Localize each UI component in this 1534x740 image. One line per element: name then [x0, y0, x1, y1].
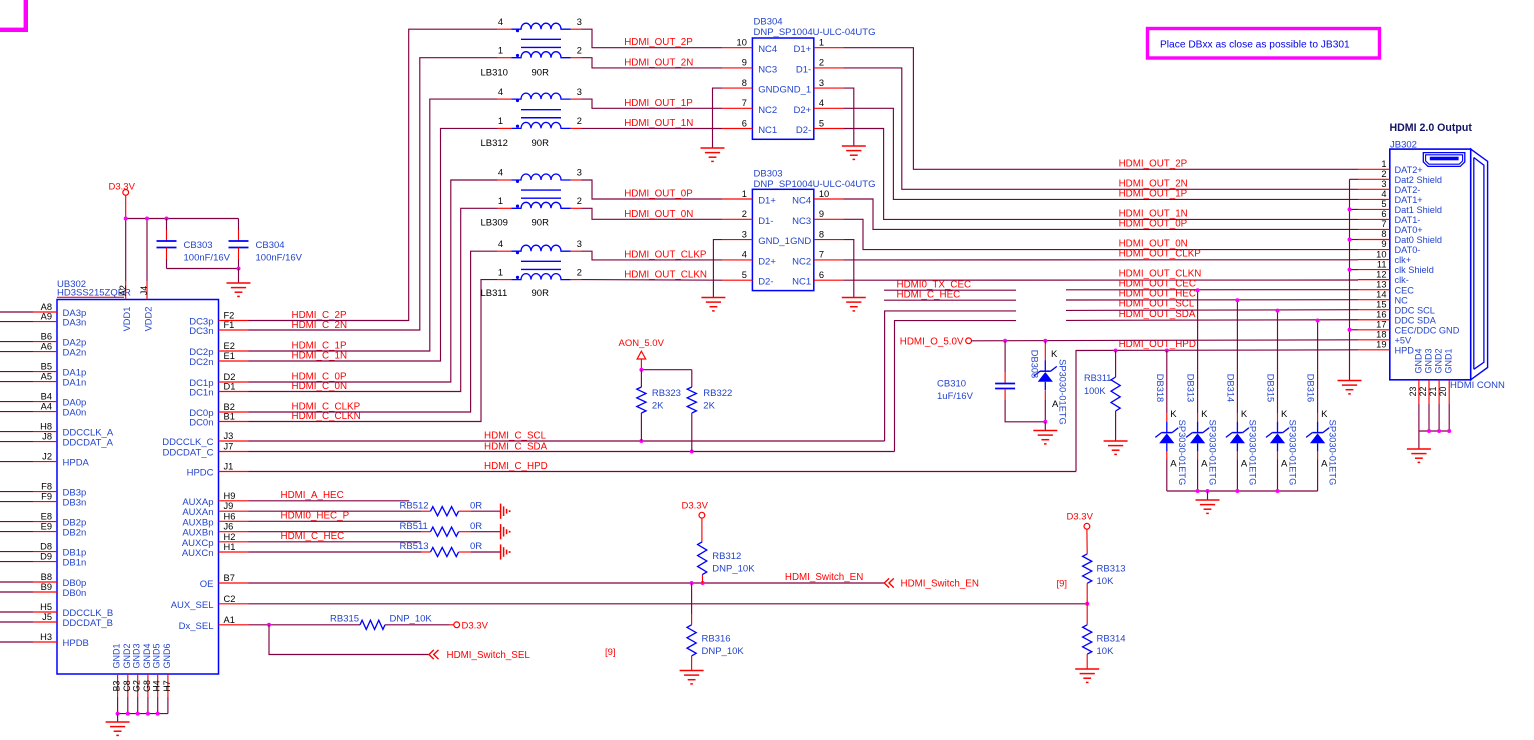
- svg-text:100K: 100K: [1084, 386, 1106, 396]
- UB302 pin F8 DB3p wire: [0, 491, 33, 493]
- wire HDMI_OUT_CLKN (DB303 pin6 to JB302 pin12): [844, 279, 1358, 281]
- UB302 pin H3 HPDB wire: [0, 641, 33, 643]
- svg-text:8: 8: [742, 78, 747, 88]
- UB302 pin E1 DC2n stub: [219, 360, 249, 362]
- svg-text:2: 2: [1381, 169, 1386, 179]
- off-page arrow HDMI_Switch_SEL: [429, 650, 434, 659]
- svg-text:HDMI_OUT_1N: HDMI_OUT_1N: [624, 118, 693, 129]
- UB302 pin B7 OE stub: [219, 582, 249, 584]
- UB302 pin J7 DDCDAT_C stub: [219, 451, 249, 453]
- svg-text:HDMI_C_SCL: HDMI_C_SCL: [484, 431, 547, 442]
- svg-text:0R: 0R: [470, 521, 482, 532]
- svg-text:DAT0+: DAT0+: [1395, 225, 1423, 235]
- UB302 pin H2 AUXCp stub: [219, 541, 249, 543]
- svg-text:DNP_SP1004U-ULC-04UTG: DNP_SP1004U-ULC-04UTG: [754, 179, 876, 190]
- svg-text:HDMI_C_HEC: HDMI_C_HEC: [281, 531, 345, 542]
- ground stub (RB511): [500, 524, 502, 539]
- svg-text:23: 23: [1408, 387, 1418, 397]
- UB302 pin D9 DB1n wire: [0, 561, 33, 563]
- wire Dx_SEL (A1): [249, 624, 361, 626]
- svg-text:DB314: DB314: [1225, 374, 1235, 402]
- wire HDMI_OUT_CLKP (DB303 pin7 to JB302 pin10): [844, 259, 1358, 261]
- UB302 pin J1 HPDC stub: [219, 471, 249, 473]
- JB302 pin 2 Dat2 Shield: [1358, 178, 1390, 180]
- svg-text:D9: D9: [40, 552, 52, 562]
- wire AUXAp (H9): [249, 500, 410, 502]
- svg-text:12: 12: [1376, 269, 1386, 279]
- svg-text:GND4: GND4: [142, 643, 152, 668]
- svg-text:6: 6: [742, 118, 747, 128]
- UB302 pin A5 DA1n wire: [0, 381, 33, 383]
- svg-text:J5: J5: [42, 612, 52, 622]
- svg-text:6: 6: [819, 270, 824, 280]
- wire HDMI_OUT_2N (DB304 pin2 to JB302 pin3): [844, 68, 1358, 189]
- wire UB302 output riser to choke (1): [249, 58, 498, 330]
- UB302 pin E2 DC2p stub: [219, 350, 249, 352]
- svg-text:DC2n: DC2n: [189, 357, 213, 368]
- UB302 pin H6 AUXBp stub: [219, 520, 249, 522]
- svg-text:D1+: D1+: [758, 196, 776, 207]
- svg-text:DB3n: DB3n: [63, 498, 87, 509]
- JB302 pin 4 DAT1+: [1358, 198, 1390, 200]
- wire DB303 pin8 GND: [844, 240, 854, 298]
- svg-text:13: 13: [1376, 279, 1386, 289]
- JB302 pin 9 DAT0-: [1358, 249, 1390, 251]
- svg-text:H3: H3: [40, 632, 52, 642]
- UB302 pin B4 DA0p wire: [0, 401, 33, 403]
- svg-text:HPDB: HPDB: [63, 638, 89, 649]
- svg-text:HPD: HPD: [1395, 345, 1415, 355]
- svg-text:HDMI_C_2N: HDMI_C_2N: [292, 320, 348, 331]
- JB302 pin 16 DDC SDA: [1358, 319, 1390, 321]
- svg-text:NC3: NC3: [792, 216, 811, 227]
- svg-text:DDCDAT_B: DDCDAT_B: [63, 618, 114, 629]
- svg-text:D1-: D1-: [758, 216, 773, 227]
- svg-text:F2: F2: [224, 311, 235, 321]
- TVS diode DB314 SP3030-01ETG: [1236, 300, 1238, 413]
- svg-text:4: 4: [498, 239, 503, 249]
- svg-text:HDMI_OUT_2P: HDMI_OUT_2P: [624, 37, 693, 48]
- svg-text:HDMI_OUT_0N: HDMI_OUT_0N: [624, 209, 693, 220]
- UB302 pin B5 DA1p wire: [0, 371, 33, 373]
- JB302 pin 15 DDC SCL: [1358, 309, 1390, 311]
- svg-text:DB316: DB316: [1306, 374, 1316, 402]
- UB302 pin A4 DA0n wire: [0, 411, 33, 413]
- svg-text:H4: H4: [152, 680, 162, 691]
- common-mode choke LB309 90R: [498, 179, 512, 181]
- svg-text:DA1n: DA1n: [63, 378, 87, 389]
- svg-text:K: K: [1241, 409, 1248, 420]
- svg-text:100nF/16V: 100nF/16V: [184, 253, 231, 264]
- svg-text:DDCCLK_C: DDCCLK_C: [162, 437, 213, 448]
- svg-text:3: 3: [742, 229, 747, 239]
- svg-text:90R: 90R: [532, 138, 550, 149]
- svg-text:8: 8: [819, 229, 824, 239]
- svg-text:GND2: GND2: [122, 643, 132, 668]
- svg-text:D2+: D2+: [758, 256, 776, 267]
- svg-text:NC4: NC4: [758, 44, 777, 55]
- svg-text:H1: H1: [224, 542, 236, 552]
- svg-text:3: 3: [1381, 179, 1386, 189]
- svg-text:K: K: [1051, 349, 1058, 360]
- svg-text:G8: G8: [142, 680, 152, 692]
- svg-text:H7: H7: [162, 680, 172, 691]
- resistor RB322 2K: [691, 370, 693, 387]
- svg-text:A1: A1: [224, 615, 235, 625]
- svg-text:DC0n: DC0n: [189, 418, 213, 429]
- svg-text:LB312: LB312: [481, 138, 508, 149]
- svg-text:D1: D1: [224, 382, 236, 392]
- svg-text:GND3: GND3: [1424, 348, 1434, 373]
- ground (RB316): [680, 670, 704, 672]
- UB302 pin D2 DC1p stub: [219, 381, 249, 383]
- svg-text:D3.3V: D3.3V: [109, 182, 136, 193]
- UB302 GND pins B3 C8 G2 G8 H4 H7: [117, 674, 119, 697]
- ground stub (RB512): [500, 504, 502, 519]
- wire LB309 pin2 to DB303 pin2 (HDMI_OUT_0N): [582, 208, 723, 219]
- JB302 pin 19 HPD: [1358, 349, 1390, 351]
- svg-text:90R: 90R: [532, 68, 550, 79]
- JB302 pin 6 DAT1-: [1358, 218, 1390, 220]
- ground (RB314): [1075, 668, 1099, 670]
- UB302 pin D1 DC1n stub: [219, 391, 249, 393]
- svg-text:[9]: [9]: [605, 647, 616, 658]
- svg-text:DAT1+: DAT1+: [1395, 195, 1423, 205]
- svg-text:18: 18: [1376, 330, 1386, 340]
- svg-text:90R: 90R: [532, 217, 550, 228]
- svg-text:4: 4: [819, 98, 824, 108]
- svg-text:A4: A4: [41, 402, 52, 412]
- svg-text:F9: F9: [41, 492, 52, 502]
- svg-text:6: 6: [1381, 209, 1386, 219]
- svg-text:0R: 0R: [470, 541, 482, 552]
- svg-text:D1+: D1+: [793, 44, 811, 55]
- svg-text:NC2: NC2: [792, 256, 811, 267]
- svg-text:B4: B4: [41, 392, 52, 402]
- svg-text:1: 1: [1381, 159, 1386, 169]
- wire LB312 pin3 to DB304 pin7 (HDMI_OUT_1P): [582, 99, 723, 108]
- svg-text:HDMI_OUT_0P: HDMI_OUT_0P: [1119, 218, 1188, 229]
- svg-text:J8: J8: [42, 432, 52, 442]
- JB302 pin 5 Dat1 Shield: [1358, 208, 1390, 210]
- UB302 pin A6 DA2n wire: [0, 351, 33, 353]
- svg-text:D1-: D1-: [796, 64, 811, 75]
- svg-text:GND1: GND1: [1444, 348, 1454, 373]
- svg-text:C8: C8: [122, 680, 132, 691]
- UB302 pin D8 DB1p wire: [0, 551, 33, 553]
- svg-text:Place DBxx as close as possibl: Place DBxx as close as possible to JB301: [1160, 40, 1350, 51]
- svg-text:GND: GND: [758, 85, 779, 96]
- svg-text:VDD2: VDD2: [143, 307, 153, 332]
- svg-text:HDMI_C_HEC: HDMI_C_HEC: [897, 290, 961, 301]
- svg-text:5: 5: [742, 270, 747, 280]
- svg-text:A: A: [1052, 399, 1059, 410]
- ground stub (RB513): [500, 544, 502, 559]
- ground (DB304 right): [842, 145, 866, 147]
- svg-text:9: 9: [742, 58, 747, 68]
- svg-text:A9: A9: [41, 312, 52, 322]
- ground (DB303 right): [842, 297, 866, 299]
- ground (JB302): [1407, 448, 1431, 450]
- svg-text:5: 5: [1381, 199, 1386, 209]
- svg-text:D2-: D2-: [796, 125, 811, 136]
- capacitor CB304 100nF/16V: [238, 219, 240, 231]
- svg-text:100nF/16V: 100nF/16V: [256, 253, 303, 264]
- svg-text:A6: A6: [41, 342, 52, 352]
- wire DDCDAT_C (J7): [249, 451, 895, 453]
- svg-text:VDD1: VDD1: [122, 307, 132, 332]
- svg-text:HPDC: HPDC: [187, 468, 214, 479]
- svg-text:HDMI_C_SDA: HDMI_C_SDA: [484, 441, 548, 452]
- svg-text:D3.3V: D3.3V: [1067, 512, 1094, 523]
- svg-text:17: 17: [1376, 319, 1386, 329]
- svg-text:D3.3V: D3.3V: [462, 620, 489, 631]
- wire UB302 output riser to choke (4): [249, 180, 498, 382]
- svg-text:HDMI 2.0 Output: HDMI 2.0 Output: [1390, 122, 1473, 134]
- wire UB302 output riser to choke (3): [249, 128, 498, 361]
- UB302 pin J3 DDCCLK_C stub: [219, 440, 249, 442]
- wire HDMI_Switch_SEL branch: [269, 625, 429, 655]
- wire HDMI_OUT_1P (DB304 pin4 to JB302 pin4): [844, 108, 1358, 199]
- svg-text:DNP_10K: DNP_10K: [390, 613, 433, 624]
- svg-text:F8: F8: [41, 482, 52, 492]
- svg-text:DB1n: DB1n: [63, 558, 87, 569]
- svg-text:D8: D8: [40, 542, 52, 552]
- svg-text:DB315: DB315: [1266, 374, 1276, 402]
- svg-text:D2-: D2-: [758, 277, 773, 288]
- svg-text:2: 2: [742, 209, 747, 219]
- svg-text:90R: 90R: [532, 288, 550, 299]
- svg-text:1: 1: [498, 196, 503, 206]
- svg-text:RB511: RB511: [400, 521, 428, 532]
- svg-text:E1: E1: [224, 351, 235, 361]
- JB302 pin 11 clk Shield: [1358, 269, 1390, 271]
- svg-text:A: A: [1170, 459, 1177, 470]
- wire HDMI_OUT_0N (DB303 pin9 to JB302 pin9): [844, 219, 1358, 249]
- svg-text:NC1: NC1: [758, 125, 777, 136]
- svg-text:RB314: RB314: [1097, 634, 1126, 645]
- svg-text:DAT1-: DAT1-: [1395, 215, 1421, 225]
- svg-text:GND3: GND3: [132, 643, 142, 668]
- resistor RB314 10K: [1086, 604, 1088, 625]
- svg-text:J1: J1: [224, 462, 234, 472]
- TVS diode DB308 SP3030-01ETG: [1044, 341, 1046, 344]
- wire HDMI_OUT_0P (DB303 pin10 to JB302 pin7): [844, 199, 1358, 229]
- svg-text:NC4: NC4: [792, 196, 811, 207]
- UB302 pin B6 DA2p wire: [0, 341, 33, 343]
- wire LB311 pin2 to DB303 pin5 (HDMI_OUT_CLKN): [582, 279, 723, 282]
- svg-text:H8: H8: [40, 422, 52, 432]
- svg-text:10: 10: [737, 38, 747, 48]
- wire VDD rail: [126, 218, 239, 220]
- svg-text:A2: A2: [118, 285, 128, 296]
- UB302 pin J6 AUXBn stub: [219, 531, 249, 533]
- svg-text:HDMI_Switch_SEL: HDMI_Switch_SEL: [447, 650, 531, 661]
- svg-text:14: 14: [1376, 289, 1386, 299]
- UB302 pin A2 VDD1: [125, 281, 127, 300]
- svg-text:2K: 2K: [703, 401, 715, 412]
- JB302 pin 7 DAT0+: [1358, 228, 1390, 230]
- resistor RB312 DNP_10K: [701, 518, 703, 542]
- wire cap ground rail: [167, 268, 239, 270]
- svg-text:+5V: +5V: [1395, 335, 1412, 345]
- svg-text:Dat0 Shield: Dat0 Shield: [1395, 235, 1443, 245]
- svg-text:Dat2 Shield: Dat2 Shield: [1395, 175, 1443, 185]
- svg-text:4: 4: [498, 168, 503, 178]
- TVS diode DB318 SP3030-01ETG: [1166, 351, 1168, 414]
- svg-text:7: 7: [1381, 219, 1386, 229]
- svg-text:HDMI_OUT_CLKP: HDMI_OUT_CLKP: [1119, 249, 1202, 260]
- svg-text:H5: H5: [40, 602, 52, 612]
- svg-text:Dx_SEL: Dx_SEL: [179, 621, 214, 632]
- svg-text:HDMI CONN: HDMI CONN: [1450, 380, 1505, 391]
- svg-text:NC: NC: [1395, 295, 1409, 305]
- ground (shield): [1338, 380, 1362, 382]
- svg-text:GND: GND: [790, 236, 811, 247]
- UB302 pin B9 DB0n wire: [0, 591, 33, 593]
- svg-text:19: 19: [1376, 340, 1386, 350]
- svg-text:CB310: CB310: [937, 379, 966, 390]
- UB302 pin H5 DDCCLK_B wire: [0, 611, 33, 613]
- resistor RB512 0R: [422, 510, 431, 512]
- wire UB302 output riser to choke (0): [249, 29, 498, 320]
- svg-text:22: 22: [1418, 387, 1428, 397]
- power D3.3V (RB315): [454, 622, 460, 628]
- svg-text:HDMI0_HEC_P: HDMI0_HEC_P: [281, 510, 350, 521]
- svg-text:AON_5.0V: AON_5.0V: [619, 338, 665, 349]
- UB302 pin E8 DB2p wire: [0, 521, 33, 523]
- wire UB302 output riser to choke (7): [249, 280, 498, 422]
- svg-text:OE: OE: [200, 579, 214, 590]
- svg-text:3: 3: [577, 168, 582, 178]
- svg-text:HDMI_OUT_CLKP: HDMI_OUT_CLKP: [624, 249, 707, 260]
- wire LB311 pin3 to DB303 pin4 (HDMI_OUT_CLKP): [582, 251, 723, 260]
- svg-text:A: A: [1201, 459, 1208, 470]
- wire diode ground rail: [1167, 490, 1318, 492]
- svg-text:DC1n: DC1n: [189, 388, 213, 399]
- svg-text:CB304: CB304: [256, 240, 285, 251]
- svg-text:NC1: NC1: [792, 277, 811, 288]
- svg-text:1: 1: [742, 189, 747, 199]
- note: Place DBxx as close as possible to JB301: [1148, 29, 1380, 59]
- svg-text:HDMI_C_0N: HDMI_C_0N: [292, 381, 348, 392]
- svg-text:HDMI_A_HEC: HDMI_A_HEC: [281, 490, 344, 501]
- svg-text:4: 4: [498, 87, 503, 97]
- svg-text:SP3030-01ETG: SP3030-01ETG: [1247, 420, 1257, 486]
- svg-text:7: 7: [819, 250, 824, 260]
- svg-text:RB313: RB313: [1097, 564, 1126, 575]
- svg-text:AUXBp: AUXBp: [182, 517, 213, 528]
- wire LB312 pin2 to DB304 pin6 (HDMI_OUT_1N): [582, 127, 723, 129]
- svg-text:HDMI_O_5.0V: HDMI_O_5.0V: [900, 336, 964, 347]
- wire HDMI_OUT_1N (DB304 pin5 to JB302 pin6): [844, 129, 1358, 220]
- svg-text:LB309: LB309: [481, 217, 508, 228]
- HDMI plug icon: [1423, 153, 1465, 167]
- UB302 pin J8 DDCDAT_A wire: [0, 441, 33, 443]
- svg-text:DB304: DB304: [754, 17, 783, 28]
- svg-text:2: 2: [577, 267, 582, 277]
- svg-text:DDCDAT_C: DDCDAT_C: [162, 448, 213, 459]
- wire shield bus: [1349, 179, 1351, 380]
- UB302 pin J9 AUXAn stub: [219, 510, 249, 512]
- svg-text:RB322: RB322: [703, 388, 732, 399]
- svg-text:GND_1: GND_1: [758, 236, 790, 247]
- svg-text:2: 2: [577, 196, 582, 206]
- svg-text:H6: H6: [224, 511, 236, 521]
- JB302 pin 18 +5V: [1358, 339, 1390, 341]
- svg-text:RB316: RB316: [702, 634, 731, 645]
- wire AUXAn (J9) with RB512: [249, 510, 422, 512]
- svg-text:HDMI_Switch_EN: HDMI_Switch_EN: [785, 572, 863, 583]
- svg-text:Dat1 Shield: Dat1 Shield: [1395, 205, 1443, 215]
- svg-text:1: 1: [498, 45, 503, 55]
- wire LB310 pin3 to DB304 pin10 (HDMI_OUT_2P): [582, 29, 723, 48]
- svg-text:15: 15: [1376, 299, 1386, 309]
- svg-text:F1: F1: [224, 320, 235, 330]
- svg-text:A: A: [1281, 459, 1288, 470]
- svg-text:HDMI_C_HPD: HDMI_C_HPD: [484, 461, 548, 472]
- svg-text:D2+: D2+: [793, 105, 811, 116]
- svg-text:DB303: DB303: [754, 169, 783, 180]
- svg-text:C2: C2: [224, 594, 236, 604]
- svg-text:3: 3: [577, 17, 582, 27]
- UB302 pin H8 DDCCLK_A wire: [0, 431, 33, 433]
- wire HDMI_OUT_HEC: [884, 299, 1016, 301]
- IC UB302 HD3SS215ZQER: [57, 300, 219, 675]
- resistor RB511 0R: [422, 531, 431, 533]
- svg-text:10K: 10K: [1097, 646, 1115, 657]
- svg-text:AUXCn: AUXCn: [182, 548, 214, 559]
- svg-text:E8: E8: [41, 512, 52, 522]
- UB302 pin F2 DC3p stub: [219, 320, 249, 322]
- svg-text:DC3n: DC3n: [189, 326, 213, 337]
- TVS diode DB316 SP3030-01ETG: [1317, 321, 1319, 414]
- svg-text:DAT2-: DAT2-: [1395, 185, 1421, 195]
- resistor RB313 10K: [1086, 529, 1088, 554]
- ground (ESD diodes): [1196, 499, 1220, 501]
- svg-text:B8: B8: [41, 572, 52, 582]
- svg-text:DB308: DB308: [1030, 350, 1040, 378]
- ground (DB303 left): [701, 297, 725, 299]
- svg-text:20: 20: [1438, 387, 1448, 397]
- svg-text:LB310: LB310: [481, 68, 508, 79]
- svg-text:2: 2: [577, 45, 582, 55]
- svg-text:J4: J4: [139, 286, 149, 295]
- svg-text:DA2n: DA2n: [63, 348, 87, 359]
- svg-text:9: 9: [819, 209, 824, 219]
- wire AUXBp (H6): [249, 520, 421, 522]
- capacitor CB310 1uF/16V: [1004, 341, 1006, 372]
- UB302 pin H1 AUXCn stub: [219, 551, 249, 553]
- svg-text:SP3030-01ETG: SP3030-01ETG: [1288, 420, 1298, 486]
- svg-text:16: 16: [1376, 309, 1386, 319]
- wire UB302 output riser to choke (2): [249, 99, 498, 351]
- UB302 pin H9 AUXAp stub: [219, 500, 249, 502]
- svg-text:3: 3: [577, 87, 582, 97]
- svg-text:DA0n: DA0n: [63, 408, 87, 419]
- svg-text:4: 4: [498, 17, 503, 27]
- ground (UB302): [106, 721, 130, 723]
- svg-text:B3: B3: [112, 681, 122, 692]
- svg-text:clk Shield: clk Shield: [1395, 265, 1434, 275]
- wire OE (B7): [249, 582, 885, 584]
- svg-text:GND2: GND2: [1434, 348, 1444, 373]
- svg-text:2K: 2K: [652, 401, 664, 412]
- svg-text:K: K: [1281, 409, 1288, 420]
- svg-text:7: 7: [742, 98, 747, 108]
- UB302 pin B1 DC0n stub: [219, 421, 249, 423]
- JB302 pin 3 DAT2-: [1358, 188, 1390, 190]
